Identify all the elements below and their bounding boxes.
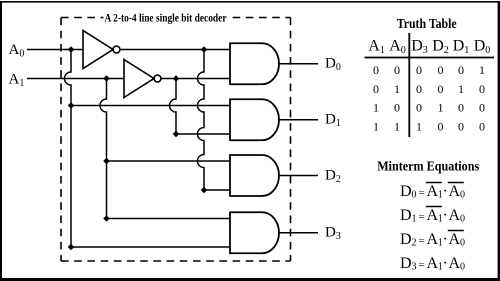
wire NOT-A0 output to AND1 xyxy=(120,49,230,51)
AND gate D3 xyxy=(230,212,279,253)
wire NOT-A1 to AND2 bottom input xyxy=(176,133,230,135)
svg-text:0: 0 xyxy=(438,82,444,96)
junction dot A0 line xyxy=(68,46,75,53)
svg-text:=: = xyxy=(419,235,425,247)
truth table row 3 xyxy=(373,101,485,115)
svg-text:3: 3 xyxy=(412,262,417,273)
wire NOT-A1 output to AND1 xyxy=(161,78,230,80)
junction dot A1 to AND3 xyxy=(103,158,110,165)
svg-text:A: A xyxy=(427,255,439,272)
svg-text:A 2-to-4 line single bit decod: A 2-to-4 line single bit decoder xyxy=(105,11,228,25)
junction dot A1 to AND4 xyxy=(103,215,110,222)
svg-text:1: 1 xyxy=(416,119,422,133)
svg-text:A1: A1 xyxy=(368,38,385,57)
svg-text:D1: D1 xyxy=(453,38,470,57)
wire A1 to AND3 top input xyxy=(107,160,231,162)
wire vertical A1 branch xyxy=(100,79,106,219)
svg-text:A: A xyxy=(449,231,461,248)
svg-text:0: 0 xyxy=(458,119,464,133)
AND gate D0 xyxy=(230,43,279,84)
svg-text:1: 1 xyxy=(458,82,464,96)
svg-text:0: 0 xyxy=(479,119,485,133)
svg-text:0: 0 xyxy=(460,262,465,273)
wire A0 input xyxy=(27,49,83,51)
svg-text:D: D xyxy=(400,255,412,272)
equation D1 xyxy=(400,207,465,225)
svg-text:0: 0 xyxy=(458,101,464,115)
svg-text:0: 0 xyxy=(416,101,422,115)
svg-text:A: A xyxy=(427,231,439,248)
wire A0 to AND2 top input xyxy=(71,105,230,107)
svg-text:1: 1 xyxy=(438,101,444,115)
svg-text:Minterm Equations: Minterm Equations xyxy=(377,160,479,175)
wire D2 output xyxy=(279,175,318,177)
svg-text:0: 0 xyxy=(460,238,465,249)
svg-text:2: 2 xyxy=(412,238,417,249)
svg-text:·: · xyxy=(443,207,448,224)
svg-text:1: 1 xyxy=(412,214,417,225)
truth table vertical divider xyxy=(408,33,410,137)
svg-text:0: 0 xyxy=(460,214,465,225)
svg-text:=: = xyxy=(419,187,425,199)
svg-text:0: 0 xyxy=(373,63,379,77)
svg-text:A0: A0 xyxy=(9,42,25,60)
equation D0 xyxy=(400,183,465,201)
svg-text:0: 0 xyxy=(412,190,417,201)
junction dot NOT-A1 to AND2 xyxy=(173,131,180,138)
svg-text:0: 0 xyxy=(458,63,464,77)
svg-text:·: · xyxy=(443,183,448,200)
truth table header rule xyxy=(365,57,495,59)
wire vertical NOT-A1 branch xyxy=(170,79,177,135)
equation D3 xyxy=(400,255,465,273)
svg-text:D: D xyxy=(400,207,412,224)
svg-text:A: A xyxy=(449,207,461,224)
svg-text:A1: A1 xyxy=(9,72,25,90)
svg-text:Truth Table: Truth Table xyxy=(397,17,457,32)
svg-text:0: 0 xyxy=(416,82,422,96)
wire vertical NOT-A0 branch xyxy=(198,50,204,191)
inverter U2 on A1 xyxy=(124,60,161,98)
wire A0 to AND4 bottom input xyxy=(71,246,230,248)
wire NOT-A0 to AND3 bottom input xyxy=(204,189,230,191)
svg-text:·: · xyxy=(443,231,448,248)
svg-text:=: = xyxy=(419,211,425,223)
svg-text:A: A xyxy=(449,183,461,200)
wire D0 output xyxy=(279,63,318,65)
svg-text:·: · xyxy=(443,255,448,272)
svg-text:D: D xyxy=(400,231,412,248)
title: A 2-to-4 line single bit decoder xyxy=(104,11,229,25)
svg-text:1: 1 xyxy=(373,119,379,133)
truth table row 1 xyxy=(373,63,485,77)
svg-text:0: 0 xyxy=(460,190,465,201)
svg-text:D2: D2 xyxy=(325,168,341,186)
truth table row 2 xyxy=(373,82,485,96)
svg-text:A: A xyxy=(427,183,439,200)
svg-text:0: 0 xyxy=(416,63,422,77)
svg-text:0: 0 xyxy=(394,63,400,77)
svg-text:A: A xyxy=(449,255,461,272)
AND gate D1 xyxy=(230,99,279,140)
inverter U1 on A0 xyxy=(83,31,120,69)
junction dot NOT-A0 line xyxy=(201,46,208,53)
truth table header row xyxy=(368,38,490,57)
junction dot A0 to AND4 xyxy=(68,244,75,251)
svg-text:D0: D0 xyxy=(474,38,491,57)
svg-text:0: 0 xyxy=(438,63,444,77)
svg-text:A0: A0 xyxy=(389,38,406,57)
svg-text:0: 0 xyxy=(479,101,485,115)
svg-text:0: 0 xyxy=(479,82,485,96)
junction dot NOT-A1 line xyxy=(173,75,180,82)
svg-text:0: 0 xyxy=(438,119,444,133)
junction dot NOT-A0 to AND3 xyxy=(201,187,208,194)
junction dot A0 to AND2 xyxy=(68,102,75,109)
svg-text:=: = xyxy=(419,259,425,271)
wire vertical A0 branch xyxy=(65,50,71,248)
svg-text:D0: D0 xyxy=(325,56,341,74)
truth table row 4 xyxy=(373,119,485,133)
svg-text:D1: D1 xyxy=(325,112,341,130)
svg-text:D3: D3 xyxy=(325,225,341,243)
svg-text:0: 0 xyxy=(373,82,379,96)
svg-text:D3: D3 xyxy=(411,38,428,57)
wire D1 output xyxy=(279,119,318,121)
dashed decoder boundary box xyxy=(61,18,291,262)
equation D2 xyxy=(400,231,465,249)
svg-text:D2: D2 xyxy=(432,38,449,57)
svg-text:1: 1 xyxy=(394,82,400,96)
wire A1 input xyxy=(27,78,124,80)
svg-text:1: 1 xyxy=(479,63,485,77)
wire D3 output xyxy=(279,232,318,234)
AND gate D2 xyxy=(230,155,279,196)
svg-text:A: A xyxy=(427,207,439,224)
svg-text:1: 1 xyxy=(373,101,379,115)
svg-text:1: 1 xyxy=(394,119,400,133)
wire A1 to AND4 top input xyxy=(107,218,231,220)
svg-text:0: 0 xyxy=(394,101,400,115)
svg-text:D: D xyxy=(400,183,412,200)
junction dot A1 line xyxy=(103,75,110,82)
